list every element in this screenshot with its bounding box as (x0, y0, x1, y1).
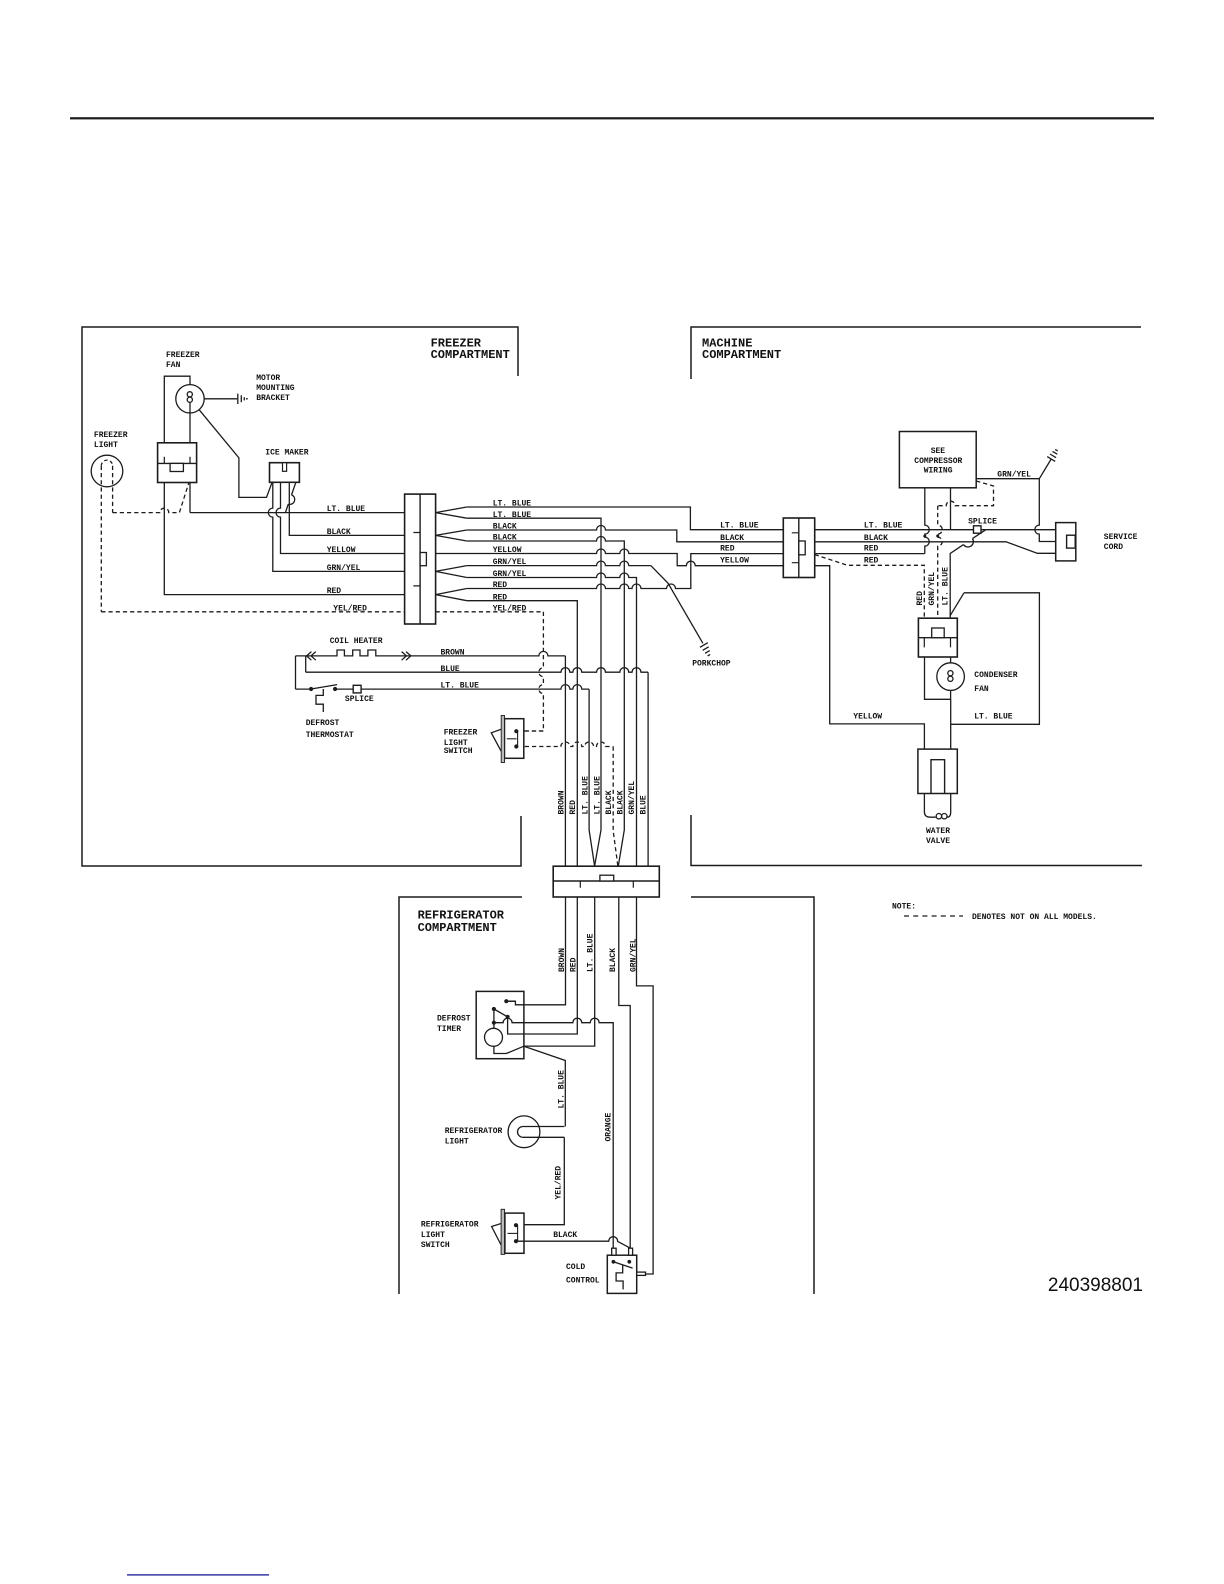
svg-text:BRACKET: BRACKET (256, 394, 290, 403)
wire ORANGE from timer (494, 1018, 613, 1248)
svg-text:BLUE: BLUE (441, 665, 460, 674)
svg-text:GRN/YEL: GRN/YEL (628, 781, 637, 815)
condenser connector block (918, 618, 957, 657)
wire LT. BLUE to light (524, 1046, 565, 1126)
svg-text:COMPARTMENT: COMPARTMENT (418, 921, 497, 935)
refrigerator light switch (505, 1213, 524, 1253)
cold control body (607, 1255, 636, 1293)
junction dots compressor (923, 535, 926, 538)
freezer fan motor (176, 385, 204, 413)
wire RED dashed alt (815, 555, 925, 619)
svg-text:ICE MAKER: ICE MAKER (265, 448, 308, 457)
wire BLACK ice maker pin 3 (289, 482, 404, 535)
porkchop wire (651, 566, 703, 644)
svg-text:REFRIGERATOR: REFRIGERATOR (445, 1127, 503, 1136)
svg-text:CONDENSER: CONDENSER (974, 671, 1017, 680)
wire YEL/RED dashed right (436, 611, 544, 613)
freezer compartment box (82, 327, 521, 866)
svg-text:BLACK: BLACK (605, 790, 614, 814)
wire GRN/YEL compressor (976, 479, 1055, 542)
wire LT. BLUE refrigerator (524, 897, 595, 1046)
lower connector block (553, 866, 659, 897)
svg-text:WIRING: WIRING (924, 467, 953, 476)
svg-text:SWITCH: SWITCH (444, 747, 473, 756)
wire dashed freezer light right leg (112, 466, 114, 513)
svg-text:LT. BLUE: LT. BLUE (942, 567, 951, 606)
wire BLUE (306, 668, 648, 673)
freezer light (91, 455, 123, 487)
coil heater right chevrons (402, 652, 411, 661)
wire GRN/YEL 1 porkchop branch (467, 561, 651, 566)
svg-text:PORKCHOP: PORKCHOP (692, 660, 731, 669)
wire LT. BLUE fan to left connector (190, 512, 405, 514)
splice square machine (974, 526, 982, 533)
svg-text:NOTE:: NOTE: (892, 902, 916, 911)
svg-text:LT. BLUE: LT. BLUE (587, 933, 596, 972)
svg-text:ORANGE: ORANGE (605, 1112, 614, 1141)
svg-text:RED: RED (864, 556, 879, 565)
svg-text:LT. BLUE: LT. BLUE (558, 1070, 567, 1109)
svg-text:LT. BLUE: LT. BLUE (974, 713, 1013, 722)
svg-text:GRN/YEL: GRN/YEL (327, 564, 361, 573)
svg-text:LT. BLUE: LT. BLUE (327, 505, 366, 514)
water valve coil (924, 794, 950, 818)
svg-text:BLACK: BLACK (327, 528, 351, 537)
motor mounting bracket symbol (238, 394, 245, 404)
wire BROWN refrigerator (506, 897, 565, 1005)
ice maker body (270, 463, 300, 483)
water valve connector (918, 749, 957, 793)
freezer light switch (505, 719, 524, 759)
svg-text:CORD: CORD (1104, 543, 1123, 552)
wire LT. BLUE condenser tap (950, 530, 986, 619)
svg-text:LT. BLUE: LT. BLUE (864, 522, 903, 531)
wire LT. BLUE pair fan (436, 507, 467, 518)
freezer light filament (101, 460, 112, 466)
svg-text:BLACK: BLACK (864, 534, 888, 543)
svg-text:YELLOW: YELLOW (720, 557, 749, 566)
svg-text:COLD: COLD (566, 1263, 585, 1272)
ground diagonal (1039, 459, 1051, 479)
wire RED refrigerator (508, 897, 578, 1034)
defrost timer contact 2 (492, 1007, 496, 1011)
svg-text:LT. BLUE: LT. BLUE (593, 776, 602, 815)
wire YELLOW ice maker pin 2 (276, 482, 405, 553)
wire freezer fan top loop (164, 376, 190, 443)
svg-text:SPLICE: SPLICE (968, 517, 997, 526)
svg-text:COMPARTMENT: COMPARTMENT (702, 348, 781, 362)
wire RED freezer fan leg (164, 443, 404, 595)
svg-text:GRN/YEL: GRN/YEL (928, 572, 937, 606)
wire fan to bracket (204, 398, 237, 400)
wire timer motor tail (494, 1023, 524, 1054)
svg-text:CONTROL: CONTROL (566, 1277, 600, 1286)
svg-text:BLACK: BLACK (720, 534, 744, 543)
svg-text:WATER: WATER (926, 827, 950, 836)
svg-text:RED: RED (864, 545, 879, 554)
coil heater left chevrons (307, 652, 316, 661)
wire GRN/YEL dashed alt (938, 481, 994, 506)
svg-text:LT. BLUE: LT. BLUE (720, 522, 759, 531)
defrost timer links (494, 1001, 516, 1023)
condenser fan (937, 663, 965, 691)
svg-text:COMPARTMENT: COMPARTMENT (431, 348, 510, 362)
defrost timer contact 4 (492, 1021, 496, 1025)
defrost thermostat contacts (309, 687, 313, 691)
wire GRN/YEL pair fan (436, 566, 467, 578)
svg-text:FREEZER: FREEZER (94, 431, 128, 440)
svg-text:RED: RED (916, 591, 925, 606)
wire LT. BLUE to machine (467, 507, 1056, 530)
svg-text:RED: RED (569, 800, 578, 815)
cold control arm (613, 1262, 632, 1268)
svg-text:LIGHT: LIGHT (445, 1137, 469, 1146)
timer motor (485, 1028, 503, 1046)
svg-text:COMPRESSOR: COMPRESSOR (914, 457, 962, 466)
wire YEL/RED to switch (516, 1137, 564, 1224)
wire YELLOW (436, 549, 925, 749)
bottom blue underline (127, 1574, 269, 1575)
defrost timer contact 1 (504, 999, 508, 1003)
wire GRN/YEL dashed down (938, 506, 943, 619)
svg-text:BLUE: BLUE (640, 795, 649, 814)
svg-text:YELLOW: YELLOW (327, 546, 356, 555)
wire GRN/YEL 2 down (467, 573, 637, 866)
wire fan motor down to ice maker junction (199, 410, 272, 498)
wire LT. BLUE heater run (296, 685, 590, 690)
wire BLACK 2 down (467, 537, 625, 866)
wire dashed freezer light to fan pin (113, 483, 189, 513)
svg-text:TIMER: TIMER (437, 1025, 461, 1034)
svg-text:SERVICE: SERVICE (1104, 533, 1138, 542)
wire compressor pin A (925, 488, 930, 554)
svg-text:RED: RED (327, 587, 342, 596)
top rule (70, 117, 1154, 119)
svg-text:SWITCH: SWITCH (421, 1241, 450, 1250)
wire LT. BLUE freezer fan leg (189, 413, 191, 513)
svg-text:FREEZER: FREEZER (444, 729, 478, 738)
wire GRN/YEL ice maker pin 1 (268, 482, 404, 571)
svg-text:FAN: FAN (166, 361, 181, 370)
svg-text:BLACK: BLACK (617, 790, 626, 814)
wire BLACK switch to cold control (516, 1237, 630, 1248)
wire LT. BLUE heater left link (295, 656, 297, 689)
wire condenser loop right (951, 593, 1040, 725)
svg-text:FREEZER: FREEZER (166, 351, 200, 360)
wire BLUE link (305, 656, 307, 672)
svg-text:BLACK: BLACK (553, 1231, 577, 1240)
porkchop hatch (700, 643, 710, 656)
cold control sensor (616, 1265, 623, 1290)
svg-text:BROWN: BROWN (441, 648, 465, 657)
svg-text:COIL HEATER: COIL HEATER (330, 637, 383, 646)
wire dashed to freezer switch top (518, 730, 544, 732)
svg-text:LT. BLUE: LT. BLUE (441, 682, 480, 691)
defrost timer contact 3 (506, 1015, 510, 1019)
wire condenser fan loop (925, 657, 951, 749)
svg-text:VALVE: VALVE (926, 837, 950, 846)
wire YEL/RED dashed down to switch (518, 612, 544, 731)
defrost timer box (476, 991, 524, 1058)
freezer fan connector block (158, 443, 197, 483)
svg-text:YELLOW: YELLOW (853, 713, 882, 722)
svg-text:LT. BLUE: LT. BLUE (582, 776, 591, 815)
svg-text:RED: RED (720, 545, 735, 554)
wire GRN/YEL refrigerator (637, 897, 654, 1274)
svg-text:REFRIGERATOR: REFRIGERATOR (421, 1221, 479, 1230)
svg-text:FAN: FAN (974, 685, 989, 694)
machine compartment box (691, 327, 1142, 866)
svg-text:YEL/RED: YEL/RED (555, 1166, 564, 1200)
wire BLACK to machine (467, 526, 1056, 554)
wire BLACK pair fan (436, 530, 467, 541)
wire BLACK refrigerator (619, 897, 630, 1248)
wire BLACK dashed switch (518, 742, 614, 747)
wire BLACK dashed down (613, 747, 618, 866)
service cord connector (1056, 523, 1076, 561)
svg-text:MOUNTING: MOUNTING (256, 384, 295, 393)
wire BROWN coil heater (296, 650, 566, 656)
svg-text:LIGHT: LIGHT (94, 441, 118, 450)
svg-text:GRN/YEL: GRN/YEL (630, 938, 639, 972)
svg-text:RED: RED (570, 957, 579, 972)
refrigerator light (508, 1116, 540, 1148)
wire RED pair fan (436, 589, 467, 601)
svg-text:GRN/YEL: GRN/YEL (997, 470, 1031, 479)
refrigerator compartment box (399, 897, 814, 1294)
refrigerator light filament (523, 1127, 564, 1138)
splice square freezer (353, 685, 361, 693)
wire RED rise to machine (467, 554, 925, 589)
left interconnect block (405, 494, 436, 624)
svg-text:DENOTES NOT ON ALL MODELS.: DENOTES NOT ON ALL MODELS. (972, 913, 1097, 922)
compressor box (899, 432, 976, 488)
wire RED 2 down (467, 601, 578, 866)
ground hatch (1047, 449, 1058, 461)
svg-text:BROWN: BROWN (558, 948, 567, 972)
svg-text:MOTOR: MOTOR (256, 374, 280, 383)
cold control contacts (612, 1260, 616, 1264)
svg-text:THERMOSTAT: THERMOSTAT (306, 731, 354, 740)
wire condenser diag (950, 593, 964, 616)
wire BLUE down (647, 672, 649, 866)
svg-text:DEFROST: DEFROST (437, 1014, 471, 1023)
svg-text:LIGHT: LIGHT (421, 1231, 445, 1240)
svg-text:DEFROST: DEFROST (306, 719, 340, 728)
svg-text:BROWN: BROWN (558, 790, 567, 814)
wire YEL/RED dashed freezer light left leg (100, 466, 102, 612)
svg-text:SPLICE: SPLICE (345, 695, 374, 704)
defrost thermostat arm (311, 685, 337, 689)
svg-text:BLACK: BLACK (609, 948, 618, 972)
wire LT. BLUE ice maker pin 4 diagonal (285, 482, 296, 512)
defrost timer arm (494, 1009, 508, 1017)
note dashed sample (904, 915, 963, 917)
wire BROWN down (564, 656, 566, 866)
wire LT. BLUE 2 down (467, 518, 601, 866)
svg-text:240398801: 240398801 (1048, 1275, 1143, 1296)
right interconnect block (783, 518, 814, 578)
wire LT. BLUE heater down (589, 689, 595, 866)
defrost thermostat sensor (316, 689, 323, 712)
wire YEL/RED dashed to left connector (101, 611, 404, 613)
svg-text:SEE: SEE (931, 447, 946, 456)
wire compressor pin B (950, 488, 952, 530)
